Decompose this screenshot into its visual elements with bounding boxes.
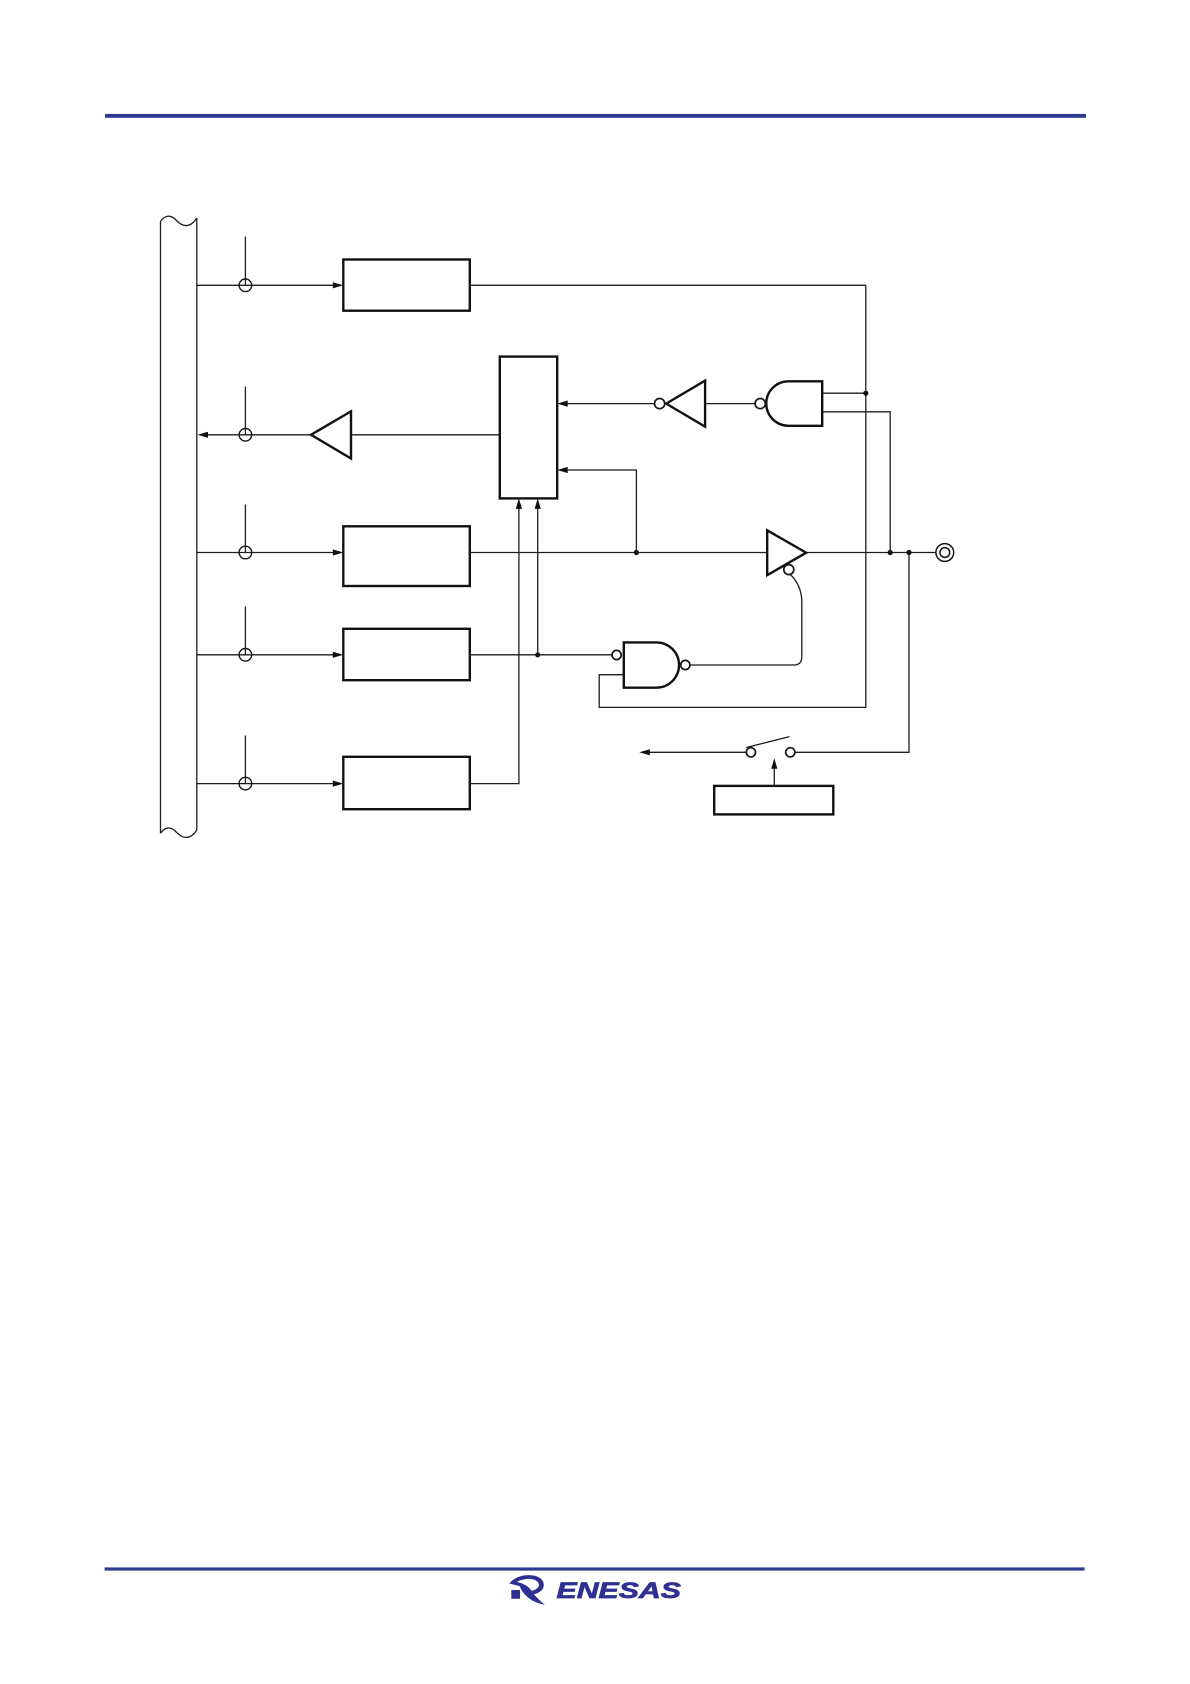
arrowhead into register3 [333,549,344,555]
arrowhead into register5 [333,781,344,787]
wire mux feedback from pad line [567,470,636,553]
data bus bottom break wave [161,828,197,837]
bus tap stub bit1 [244,237,246,286]
data bus top break wave [161,216,197,225]
nand U2 output bubble [755,399,765,409]
wire nand2 input1 to feedback line [822,392,866,394]
arrowhead read path left [639,749,650,755]
inverter output bubble [655,399,665,409]
arrowhead into register1 [333,282,344,288]
wire feedback vertical and U-path to nand1 lower input [599,285,866,707]
wire nand2 input2 to pad line [822,412,890,553]
output tristate buffer triangle (points right) [767,530,806,575]
junction dot mux-feedback on pad line [634,550,639,555]
wire register3 output to tristate buffer [470,552,767,554]
bus tap stub bit5 [244,736,246,784]
junction dot row4-mux [535,652,540,657]
arrowhead into register4 [333,652,344,658]
wire bus-to-register1 row1 [197,284,334,286]
bus tap circle bit2 [239,429,252,442]
wire bus-to-register4 row4 [197,654,334,656]
switch contact left [746,748,755,757]
tristate control bubble [784,565,794,575]
wire input switch to left arrow [649,751,747,753]
pad inner circle [940,548,950,558]
wire row2 buffer input from mux [351,434,500,436]
wire inverter output to mux [567,403,654,405]
wire bus-to-register5 row5 [197,783,334,785]
arrowhead into mux feedback [557,467,568,473]
arrowhead control to switch [771,758,777,769]
switch contact right [786,748,795,757]
nand gate U1 body [624,642,679,687]
nand U1 output bubble [681,660,690,669]
switch lever [746,737,789,748]
register 1 (top) [343,260,470,311]
wire inverter input from nand2 output [705,403,755,405]
register 3 [343,526,470,586]
header rule [105,114,1086,118]
wire register5 output up to mux [470,509,519,784]
wire control register to switch arrow [773,762,775,786]
read buffer triangle (row2, points left) [311,411,351,458]
bus tap circle bit3 [239,546,252,559]
arrowhead into mux bottom left [516,498,522,509]
arrowhead into mux from inverter [557,401,568,407]
wire pad line down to input switch [795,553,909,753]
bus tap circle bit1 [239,279,252,292]
bus tap circle bit5 [239,777,252,790]
nand U1 input bubble [612,650,621,659]
wire register4 output to nand input [470,654,612,656]
wire row2 buffer output to bus [207,434,312,436]
pad outer circle [936,544,954,562]
bus tap stub bit2 [244,387,246,435]
logo R with swash [509,1575,545,1605]
nand gate U2 body (mirrored, output left) [766,381,822,426]
logo square dot [511,1590,520,1599]
data bus left edge [160,222,162,834]
junction dot pad line switch branch [906,550,911,555]
bus tap stub bit4 [244,607,246,655]
Renesas logo [509,1575,545,1605]
svg-text:ENESAS: ENESAS [557,1578,682,1603]
arrowhead into mux bottom right [535,498,541,509]
register 4 [343,629,470,680]
mode control block (bottom right) [714,786,833,815]
wire nand1 output to tristate control [690,574,802,665]
junction dot feedback-nand2 [863,391,868,396]
register 5 [343,757,470,809]
arrowhead into bus row2 [198,432,209,438]
bus tap stub bit3 [244,505,246,553]
data bus right edge [196,218,198,830]
junction dot pad line nand2 input [888,550,893,555]
multiplexer block [500,357,557,499]
wire register1 output to feedback corner [470,284,866,286]
inverter triangle (points left) [666,381,705,427]
footer rule [105,1567,1085,1570]
wire bus-to-register3 row3 [197,552,334,554]
wire mux select from row4 junction [537,509,539,655]
wire tristate output to pad [806,552,936,554]
bus tap circle bit4 [239,649,252,662]
